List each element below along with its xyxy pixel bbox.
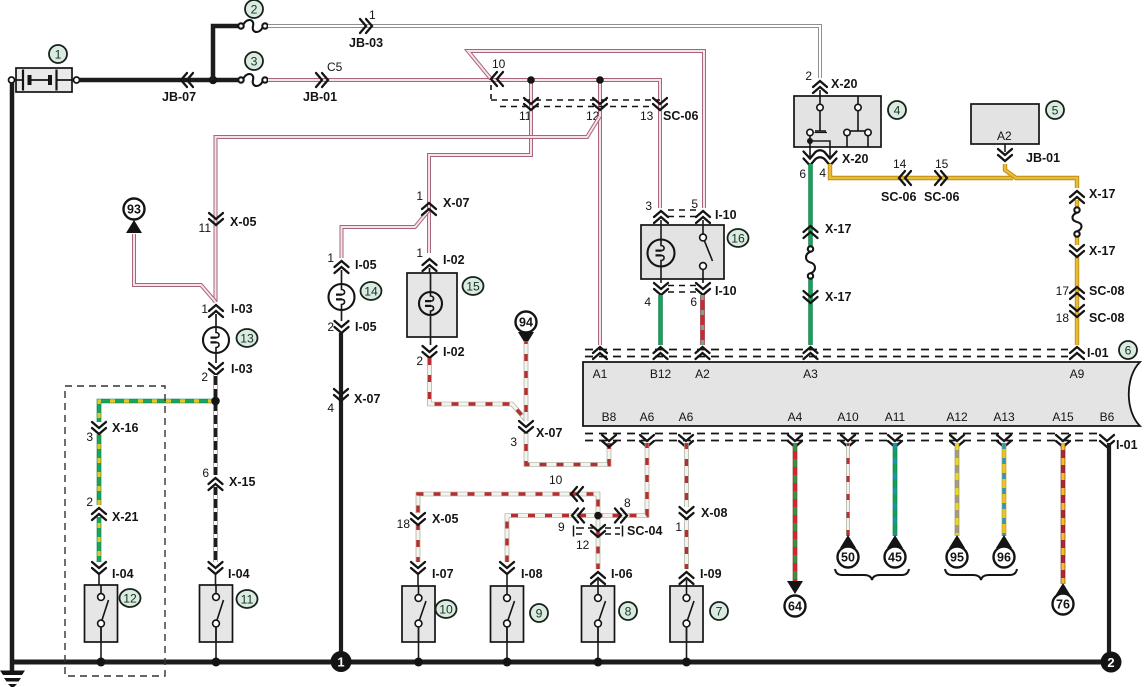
- svg-text:2: 2: [251, 2, 258, 16]
- svg-text:94: 94: [519, 316, 533, 330]
- component number 12: [120, 589, 141, 607]
- connector X-17 lower green: [804, 291, 818, 303]
- lamp L15: [430, 274, 432, 293]
- connector I-10 pin 4: [654, 283, 668, 295]
- brace 50 45: [835, 569, 909, 580]
- svg-text:17: 17: [1056, 284, 1070, 298]
- connector I-04 right: [209, 562, 223, 574]
- svg-text:A4: A4: [788, 410, 803, 424]
- connector I-09: [680, 572, 694, 584]
- svg-text:8: 8: [624, 496, 631, 510]
- svg-text:11: 11: [241, 592, 254, 606]
- wire yellow-blue A13 to 96: [1002, 443, 1007, 536]
- wire lamp14 top: [341, 270, 343, 284]
- svg-text:X-15: X-15: [229, 475, 255, 489]
- svg-text:C5: C5: [327, 60, 343, 74]
- lamp unit 15 box: [407, 273, 457, 337]
- svg-text:I-06: I-06: [611, 567, 633, 581]
- component number 6: [1119, 341, 1137, 359]
- junction node green-yellow: [211, 397, 220, 406]
- component number 14: [361, 282, 382, 300]
- component number 13: [237, 329, 258, 347]
- connector X-07 pin 3: [519, 421, 533, 433]
- wire lamp15 top: [429, 268, 431, 280]
- svg-text:10: 10: [439, 602, 453, 616]
- splice SC-06 dashed link: [490, 85, 492, 100]
- component number 3: [245, 52, 263, 70]
- wire pink splice12 to X-05: [216, 116, 601, 302]
- fuse F2: [238, 20, 267, 32]
- wire red-white SC-04 to I-07: [418, 494, 598, 516]
- svg-text:2: 2: [86, 495, 93, 509]
- svg-text:X-05: X-05: [230, 215, 256, 229]
- svg-text:18: 18: [397, 517, 411, 531]
- svg-text:3: 3: [645, 199, 652, 213]
- connector I-05 pin 2: [335, 321, 349, 333]
- connector I-02 pin 2: [423, 346, 437, 358]
- wire lamp13 top: [215, 314, 217, 327]
- connector X-15 pin 6: [209, 478, 223, 490]
- component number 15: [463, 277, 484, 295]
- arrow 45: [887, 535, 903, 548]
- svg-text:X-20: X-20: [842, 152, 868, 166]
- svg-text:B8: B8: [602, 410, 617, 424]
- I-10 top dashes: [668, 209, 697, 211]
- svg-text:I-04: I-04: [228, 567, 250, 581]
- svg-text:SC-08: SC-08: [1089, 284, 1124, 298]
- svg-text:I-10: I-10: [715, 208, 737, 222]
- svg-text:13: 13: [640, 109, 654, 123]
- connector SC-04 pin 8: [615, 509, 627, 523]
- svg-text:A2: A2: [695, 367, 710, 381]
- svg-text:X-17: X-17: [1089, 187, 1115, 201]
- connector SC-08 pin 17: [1070, 287, 1084, 299]
- connector X-21 pin 2: [92, 508, 106, 520]
- svg-text:I-09: I-09: [700, 567, 722, 581]
- connector X-17 upper yellow: [1070, 191, 1084, 203]
- component number 8: [619, 602, 637, 620]
- svg-text:I-05: I-05: [355, 320, 377, 334]
- svg-text:JB-03: JB-03: [349, 36, 383, 50]
- wire pink splice11 to X-07: [429, 112, 531, 253]
- splice pin 11: [524, 98, 538, 110]
- svg-text:6: 6: [799, 167, 806, 181]
- switch S10: [417, 574, 419, 597]
- component number 11: [237, 590, 258, 608]
- connector JB-07: [181, 73, 193, 87]
- connector JB-01 pin C5: [316, 73, 328, 87]
- svg-text:B12: B12: [650, 367, 672, 381]
- svg-text:JB-01: JB-01: [1026, 151, 1060, 165]
- fuse F3: [238, 74, 267, 86]
- svg-text:12: 12: [123, 591, 137, 605]
- svg-text:X-07: X-07: [354, 392, 380, 406]
- svg-text:14: 14: [364, 284, 378, 298]
- wire red-white SC-04 down to I-06: [596, 516, 601, 570]
- junction node on pink: [527, 76, 535, 84]
- svg-text:5: 5: [1052, 103, 1059, 117]
- svg-text:B6: B6: [1100, 410, 1115, 424]
- svg-text:4: 4: [819, 166, 826, 180]
- svg-text:95: 95: [950, 551, 964, 565]
- ground node 1: [331, 651, 352, 672]
- svg-text:96: 96: [997, 551, 1011, 565]
- block pin A2: [696, 347, 710, 359]
- component number 10: [436, 600, 457, 618]
- svg-text:I-03: I-03: [231, 302, 253, 316]
- wire red-white A6 to X-08 I-09: [684, 443, 689, 507]
- svg-text:I-04: I-04: [112, 567, 134, 581]
- svg-text:A9: A9: [1070, 367, 1085, 381]
- block pin A3: [804, 347, 818, 359]
- svg-text:A11: A11: [885, 410, 906, 424]
- connector I-07: [411, 562, 425, 574]
- svg-text:JB-01: JB-01: [303, 90, 337, 104]
- svg-text:I-05: I-05: [355, 258, 377, 272]
- component number 16: [728, 229, 749, 247]
- svg-text:7: 7: [716, 604, 723, 618]
- svg-text:6: 6: [690, 295, 697, 309]
- wire yellow relay to A9: [830, 164, 1013, 178]
- ground symbol: [10, 78, 15, 671]
- switch in unit 16: [700, 234, 713, 283]
- svg-text:A6: A6: [679, 410, 694, 424]
- wire red-green pin6 to A2: [700, 295, 705, 345]
- wire S10 to ground: [418, 627, 420, 662]
- wire lamp14 bottom: [341, 310, 343, 321]
- svg-text:A3: A3: [803, 367, 818, 381]
- connector I-04 left: [92, 562, 106, 574]
- svg-text:I-08: I-08: [521, 567, 543, 581]
- svg-text:A12: A12: [946, 410, 968, 424]
- svg-text:93: 93: [127, 203, 141, 217]
- component number 9: [530, 604, 548, 622]
- wire junction up to fuse 2: [213, 26, 238, 80]
- wire pink splice12 to A1: [598, 114, 602, 345]
- svg-text:1: 1: [327, 251, 334, 265]
- svg-text:I-02: I-02: [443, 253, 465, 267]
- svg-text:8: 8: [625, 604, 632, 618]
- wire S9 to ground: [506, 627, 508, 662]
- svg-text:X-05: X-05: [432, 512, 458, 526]
- svg-text:X-07: X-07: [443, 196, 469, 210]
- switch S7: [686, 580, 688, 597]
- component number 4: [888, 101, 906, 119]
- wire pink top branch: [468, 51, 704, 208]
- block bottom dashes: [585, 433, 1098, 435]
- connector SC-04 pin 9: [572, 509, 584, 523]
- svg-text:1: 1: [201, 302, 208, 316]
- svg-text:I-07: I-07: [432, 567, 454, 581]
- wire pink to arrow 93: [134, 234, 216, 302]
- svg-text:64: 64: [788, 600, 802, 614]
- wire black I-05 to ground node 1: [339, 333, 343, 660]
- arrow 93: [126, 220, 142, 233]
- connector X-17 lower yellow: [1070, 245, 1084, 257]
- wire red-green A4 to 64: [793, 443, 798, 582]
- connector JB-01 pin A2: [998, 149, 1012, 161]
- wire S11 to ground: [215, 627, 217, 662]
- wire lamp13 bottom: [215, 353, 217, 363]
- wire S7 to ground: [686, 627, 688, 662]
- svg-text:1: 1: [55, 47, 62, 61]
- svg-text:4: 4: [327, 401, 334, 415]
- svg-text:X-17: X-17: [1089, 244, 1115, 258]
- arrow 50: [840, 535, 856, 548]
- connector I-06: [591, 572, 605, 584]
- connector I-10 pin 5: [696, 211, 710, 223]
- connector X-05 pin 18: [411, 513, 425, 525]
- ground node 2: [1101, 652, 1122, 673]
- svg-text:X-20: X-20: [831, 77, 857, 91]
- wire battery to junction: [80, 78, 239, 83]
- wire S8 to ground: [597, 627, 599, 662]
- svg-text:SC-06: SC-06: [924, 190, 959, 204]
- svg-text:A13: A13: [993, 410, 1015, 424]
- connector I-02 pin 1: [423, 259, 437, 271]
- junction node: [209, 76, 217, 84]
- wire pink stub to splice 12: [598, 80, 602, 114]
- svg-text:13: 13: [240, 331, 254, 345]
- connector X-05 pin 11: [209, 213, 223, 225]
- svg-text:15: 15: [935, 157, 949, 171]
- relay unit 4 box: [794, 96, 881, 147]
- arrow 76: [1055, 583, 1071, 596]
- connector I-10 pin 3: [654, 211, 668, 223]
- ground bus wire: [10, 660, 1111, 665]
- I-10 bottom dashes: [668, 285, 697, 287]
- svg-text:I-10: I-10: [715, 284, 737, 298]
- svg-text:A10: A10: [837, 410, 859, 424]
- connector X-20 pins 6 4: [804, 150, 837, 158]
- connector X-20 pin 2: [813, 81, 827, 93]
- wire red-white I-02 to X-07: [430, 358, 527, 420]
- arrow 95: [949, 535, 965, 548]
- svg-text:9: 9: [558, 520, 565, 534]
- svg-text:SC-04: SC-04: [627, 524, 662, 538]
- lamp L14: [329, 284, 355, 310]
- splice pin 13: [653, 98, 667, 110]
- switch S11: [215, 574, 217, 597]
- svg-text:4: 4: [894, 103, 901, 117]
- svg-text:76: 76: [1056, 598, 1070, 612]
- unit 5 box: [971, 104, 1039, 144]
- svg-text:2: 2: [327, 320, 334, 334]
- component number 2: [245, 0, 263, 18]
- svg-text:6: 6: [1125, 343, 1132, 357]
- svg-text:10: 10: [492, 57, 506, 71]
- connector X-17 upper green: [804, 226, 818, 238]
- connector I-08: [500, 562, 514, 574]
- connector I-05 pin 1: [335, 261, 349, 273]
- connector JB-03 pin 1: [360, 19, 372, 33]
- switch S8: [597, 580, 599, 597]
- relay internals: [807, 90, 871, 158]
- connector pin 10: [491, 72, 503, 86]
- svg-text:1: 1: [369, 8, 376, 22]
- wire JB-01 pink main: [268, 80, 660, 208]
- wire green-blue A11 to 45: [893, 443, 898, 536]
- connector SC-04 pin 10: [571, 487, 583, 501]
- svg-text:A2: A2: [997, 129, 1012, 143]
- unit 16 box: [641, 225, 724, 279]
- wire green pin4 to B12: [658, 295, 662, 345]
- wire JB-03 white: [268, 26, 820, 78]
- svg-text:A15: A15: [1052, 410, 1074, 424]
- svg-text:14: 14: [893, 157, 907, 171]
- inline connector X-17 yellow: [1073, 207, 1082, 236]
- block pin B12: [654, 347, 668, 359]
- svg-text:3: 3: [510, 435, 517, 449]
- svg-text:1: 1: [675, 520, 682, 534]
- svg-text:1: 1: [416, 189, 423, 203]
- wire red-white A10 to 50: [846, 443, 850, 536]
- wire S12 to ground: [100, 627, 102, 662]
- wire grey-yellow A12 to 95: [955, 443, 960, 536]
- svg-text:50: 50: [841, 551, 855, 565]
- battery B1: [16, 68, 72, 92]
- wire pink stub to splice 11: [529, 80, 533, 112]
- arrow 96: [996, 535, 1012, 548]
- svg-text:15: 15: [466, 279, 480, 293]
- svg-text:I-01: I-01: [1087, 346, 1109, 360]
- svg-text:X-17: X-17: [825, 290, 851, 304]
- svg-text:11: 11: [199, 221, 212, 235]
- svg-text:X-16: X-16: [112, 421, 138, 435]
- svg-text:A1: A1: [593, 367, 608, 381]
- splice SC-04 pin 12: [574, 526, 623, 537]
- svg-text:X-17: X-17: [825, 222, 851, 236]
- wire red-white 94 to X-07: [524, 341, 529, 421]
- connector I-03 pin 2: [209, 363, 223, 375]
- wire red-white A6 to SC-04: [598, 443, 647, 516]
- svg-text:2: 2: [416, 354, 423, 368]
- wire red-white SC-04 to I-08: [507, 516, 598, 563]
- svg-text:2: 2: [1107, 655, 1114, 670]
- block top dashes: [585, 349, 1068, 351]
- connector I-10 pin 6: [696, 283, 710, 295]
- svg-text:12: 12: [576, 538, 590, 552]
- wire green relay to A3: [808, 164, 812, 249]
- svg-text:X-08: X-08: [701, 506, 727, 520]
- svg-text:9: 9: [536, 606, 543, 620]
- wire red-yellow A15 to 76: [1061, 443, 1066, 584]
- component number 7: [710, 602, 728, 620]
- svg-text:I-01: I-01: [1116, 438, 1138, 452]
- svg-text:SC-06: SC-06: [663, 109, 698, 123]
- svg-text:3: 3: [251, 54, 258, 68]
- arrow 94: [516, 312, 537, 333]
- junction node on pink: [596, 76, 604, 84]
- wire black B6 to ground node 2: [1107, 443, 1111, 661]
- wire pink branch to I-05: [342, 210, 430, 258]
- component number 5: [1046, 101, 1064, 119]
- svg-text:10: 10: [549, 473, 563, 487]
- svg-text:2: 2: [805, 69, 812, 83]
- arrow 64: [787, 581, 803, 594]
- svg-text:5: 5: [691, 197, 698, 211]
- inline connector X-17 green: [806, 246, 815, 278]
- svg-text:4: 4: [644, 295, 651, 309]
- dashed enclosure box: [65, 386, 165, 676]
- svg-text:45: 45: [888, 551, 902, 565]
- switch S9: [506, 574, 508, 597]
- connector SC-06 pin 14: [899, 171, 911, 185]
- lamp L16: [648, 240, 675, 267]
- svg-text:X-07: X-07: [536, 426, 562, 440]
- svg-text:I-03: I-03: [231, 362, 253, 376]
- svg-text:1: 1: [337, 655, 344, 670]
- block pin A9: [1070, 347, 1084, 359]
- junction node SC-04: [594, 512, 602, 520]
- wire green-yellow branch: [99, 401, 213, 422]
- connector X-07 pin 1: [422, 203, 436, 215]
- brace 95 96: [945, 569, 1017, 580]
- lamp L13: [203, 327, 229, 353]
- block pin A1: [593, 347, 607, 359]
- wire black-white I-03 to I-04: [213, 375, 218, 475]
- connector I-03 pin 1: [209, 305, 223, 317]
- component number 1: [49, 45, 67, 63]
- svg-text:6: 6: [202, 466, 209, 480]
- svg-text:JB-07: JB-07: [162, 90, 196, 104]
- wire red-white X-07 to B8: [526, 433, 609, 465]
- switch S12: [98, 574, 100, 597]
- svg-text:3: 3: [86, 430, 93, 444]
- svg-text:SC-08: SC-08: [1089, 311, 1124, 325]
- connector X-08 pin 1: [680, 507, 694, 519]
- svg-text:16: 16: [731, 231, 745, 245]
- svg-text:I-02: I-02: [443, 345, 465, 359]
- connector SC-08 pin 18: [1070, 305, 1084, 317]
- svg-text:1: 1: [416, 246, 423, 260]
- svg-text:2: 2: [201, 370, 208, 384]
- svg-text:X-21: X-21: [112, 510, 138, 524]
- connector X-07 pin 4: [334, 389, 348, 401]
- splice pin 12: [593, 98, 607, 110]
- connector SC-06 pin 15: [935, 171, 947, 185]
- connector X-16 pin 3: [92, 422, 106, 434]
- svg-text:SC-06: SC-06: [881, 190, 916, 204]
- svg-text:18: 18: [1056, 311, 1070, 325]
- svg-text:A6: A6: [640, 410, 655, 424]
- connector block 6 body: [583, 362, 1140, 426]
